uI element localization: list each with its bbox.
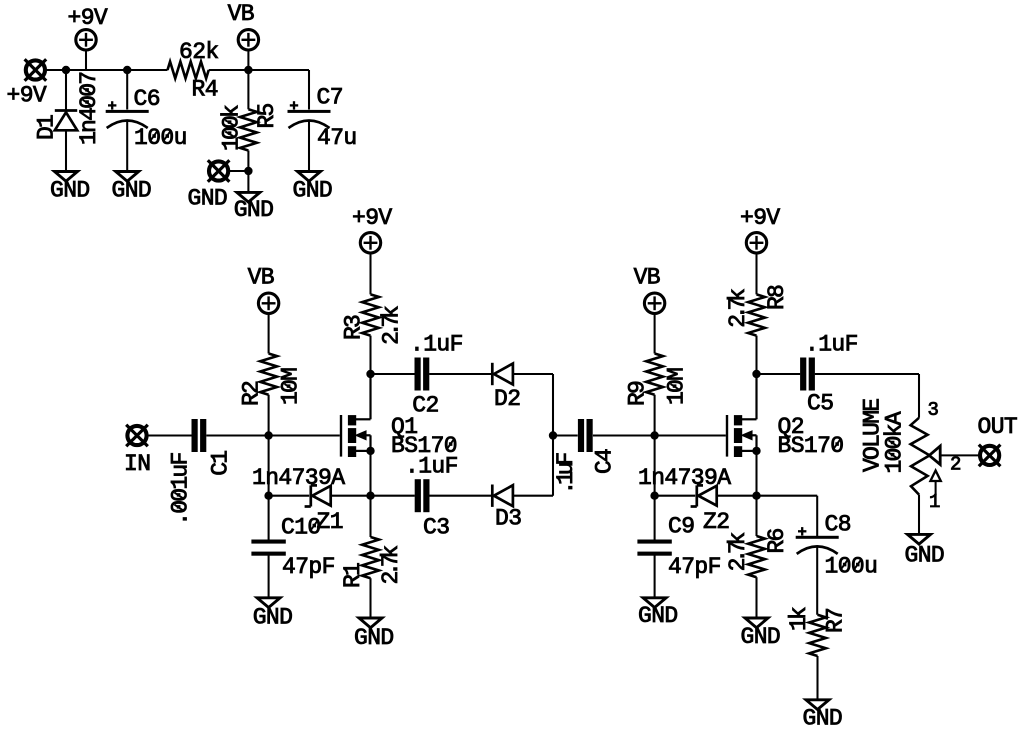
resistor R5 100k (247, 70, 249, 109)
label R1 (340, 563, 366, 588)
power symbol +9V (stage 1) (360, 233, 380, 253)
label R2 (239, 381, 265, 406)
svg-text:C4: C4 (592, 449, 618, 474)
potentiometer VOLUME 100kA track (911, 418, 930, 495)
svg-text:C2: C2 (412, 393, 438, 419)
label R6 (764, 528, 790, 553)
wire D2 to right column (513, 373, 553, 375)
svg-text:+9V: +9V (68, 5, 108, 31)
svg-text:.1uF: .1uF (410, 332, 463, 358)
ground below R1 (359, 618, 382, 628)
wire to GND jack (229, 170, 248, 172)
wire Z2 row left (655, 495, 696, 497)
capacitor C6 100u (126, 70, 128, 110)
label R7 (823, 609, 849, 633)
svg-text:VB: VB (228, 1, 254, 27)
connector IN (127, 426, 146, 445)
capacitor C8 100u (796, 536, 839, 539)
wire VB node to C7 (248, 69, 309, 71)
label 1k (786, 607, 812, 631)
wire C3 to D3 (429, 495, 492, 497)
wire C2 to D2 (429, 373, 492, 375)
svg-text:2.7k: 2.7k (378, 546, 404, 585)
wire gate node 2 to Q2 gate (655, 434, 726, 436)
svg-text:R7: R7 (823, 609, 849, 633)
diode D3 (491, 485, 494, 507)
label 1n4007 (76, 73, 102, 145)
svg-text:GND: GND (293, 177, 333, 203)
svg-text:GND: GND (638, 603, 678, 629)
resistor R1 2.7k (369, 496, 371, 537)
svg-text:D2: D2 (494, 386, 520, 412)
wire node A to C6 node (66, 69, 127, 71)
resistor R4 62k (168, 62, 209, 79)
label 10M (R2) (278, 368, 304, 405)
zener Z2 1n4739A (695, 485, 698, 506)
svg-text:C10: C10 (281, 515, 321, 541)
wire Z2 to source node 2 (716, 495, 756, 497)
svg-text:C9: C9 (668, 514, 694, 540)
svg-text:R2: R2 (239, 381, 265, 406)
svg-text:10M: 10M (664, 368, 690, 405)
svg-text:GND: GND (354, 625, 394, 651)
wire gate node to Q1 gate (269, 434, 340, 436)
svg-text:10M: 10M (278, 368, 304, 405)
svg-text:1n4739A: 1n4739A (252, 465, 345, 491)
node R5 bottom junction (244, 167, 252, 175)
wire Z1 to source node (330, 495, 370, 497)
power symbol +9V rail (76, 30, 96, 50)
diode D1 1n4007 (65, 70, 67, 111)
svg-text:47u: 47u (317, 125, 357, 151)
svg-text:100u: 100u (134, 125, 187, 151)
capacitor C7 47u (288, 110, 331, 113)
svg-text:GND: GND (253, 604, 293, 630)
node drain 1 junction (366, 370, 374, 378)
label VOLUME (860, 399, 886, 472)
svg-text:1k: 1k (786, 607, 812, 631)
ground below D1 (55, 172, 78, 182)
svg-text:2.7k: 2.7k (725, 289, 751, 328)
node B junction (123, 66, 131, 74)
wire jack to node (46, 69, 66, 71)
svg-text:GND: GND (188, 186, 228, 212)
resistor R3 2.7k (362, 294, 379, 335)
transistor Q2 BS170 (726, 415, 728, 457)
svg-text:100u: 100u (825, 554, 878, 580)
label 100kA (882, 411, 908, 473)
wire IN to C1 (148, 434, 192, 436)
connector +9V input jack (26, 60, 45, 79)
svg-text:IN: IN (124, 451, 150, 477)
wire C1 to gate node (206, 434, 268, 436)
wire Z1 row left (269, 495, 310, 497)
label 2.7k (R6) (725, 532, 751, 571)
resistor R7 1k (809, 615, 826, 656)
wire source node to C3 (371, 495, 415, 497)
svg-text:1: 1 (929, 491, 940, 513)
diode D2 (491, 363, 494, 385)
pot wiper arrow (929, 446, 940, 465)
power symbol +9V (stage 2) (746, 233, 766, 253)
svg-text:3: 3 (928, 399, 939, 421)
label 2.7k (R1) (378, 546, 404, 585)
node Q2 source-zener junction (752, 492, 760, 500)
node zener 2 junction (650, 492, 658, 500)
label 2.7k (R3) (379, 306, 405, 345)
svg-text:GND: GND (50, 178, 90, 204)
svg-text:OUT: OUT (978, 414, 1018, 440)
label R3 (340, 315, 366, 340)
node gate 2 junction (650, 431, 658, 439)
svg-text:100k: 100k (218, 105, 244, 151)
ground below pot (908, 534, 931, 544)
power symbol VB (top) (238, 30, 258, 50)
resistor R2 10M (260, 354, 277, 395)
transistor Q1 BS170 (340, 415, 342, 457)
svg-text:1n4007: 1n4007 (76, 73, 102, 145)
capacitor C2 .1uF (415, 358, 421, 391)
node gate 1 junction (264, 431, 272, 439)
ground below C6 (116, 172, 139, 182)
svg-text:GND: GND (803, 705, 843, 730)
svg-text:R9: R9 (625, 381, 651, 406)
svg-text:47pF: 47pF (668, 554, 721, 580)
label .001uF (C1) (168, 453, 194, 526)
node Q1 source-zener junction (366, 492, 374, 500)
node zener 1 junction (264, 492, 272, 500)
wire R4 to VB node (209, 69, 249, 71)
svg-text:2: 2 (950, 454, 961, 476)
label 10M (R9) (664, 368, 690, 405)
ground below C7 (298, 172, 321, 182)
wire gate node down to zener row (268, 436, 270, 496)
power symbol VB (stage 2) (644, 293, 664, 313)
svg-text:2.7k: 2.7k (725, 532, 751, 571)
svg-text:100kA: 100kA (882, 411, 908, 473)
node source 1 junction (366, 447, 374, 455)
svg-text:2.7k: 2.7k (379, 306, 405, 345)
wire R5 node to ground (247, 171, 249, 192)
svg-text:62k: 62k (179, 39, 219, 65)
svg-text:R4: R4 (192, 77, 218, 103)
svg-text:C6: C6 (134, 86, 160, 112)
svg-text:+9V: +9V (352, 205, 392, 231)
label C1 (207, 451, 233, 476)
wire C6 node to R4 (127, 69, 167, 71)
svg-text:GND: GND (234, 197, 274, 223)
ground below C10 (257, 598, 280, 608)
label .1uF (C4) (553, 453, 579, 495)
svg-text:R6: R6 (764, 528, 790, 553)
node A junction (62, 66, 70, 74)
capacitor C4 .1uF (578, 419, 584, 452)
svg-text:BS170: BS170 (778, 433, 844, 459)
wire gate node 2 down to zener row (654, 436, 656, 496)
svg-text:R1: R1 (340, 563, 366, 588)
resistor R8 2.7k (748, 294, 765, 335)
svg-text:R8: R8 (764, 285, 790, 310)
ground below C9 (643, 598, 666, 608)
capacitor C9 47pF (654, 496, 656, 542)
wire C4 to gate node 2 (593, 434, 655, 436)
wire down to C8 (816, 496, 818, 536)
capacitor C1 .001uF (192, 419, 198, 452)
svg-text:.1uF: .1uF (805, 332, 858, 358)
label 2.7k (R8) (725, 289, 751, 328)
ground below R5 (237, 192, 260, 202)
svg-text:R5: R5 (254, 103, 280, 128)
wire right column vertical (552, 374, 554, 496)
connector OUT (980, 446, 999, 465)
svg-text:.1uF: .1uF (405, 454, 458, 480)
svg-text:VB: VB (248, 265, 274, 291)
capacitor C10 47pF (268, 496, 270, 542)
svg-text:.1uF: .1uF (553, 453, 579, 495)
capacitor C3 .1uF (415, 479, 421, 512)
wire drain to C2 (371, 373, 415, 375)
svg-text:Z2: Z2 (703, 509, 729, 535)
label C4 (592, 449, 618, 474)
svg-text:47pF: 47pF (282, 554, 335, 580)
ground below R6 (745, 618, 768, 628)
wire column to C4 (553, 434, 578, 436)
svg-text:GND: GND (112, 177, 152, 203)
svg-text:C7: C7 (317, 84, 343, 110)
power symbol VB (stage 1) (258, 293, 278, 313)
svg-text:R3: R3 (340, 315, 366, 340)
label R8 (764, 285, 790, 310)
svg-text:D3: D3 (495, 506, 521, 532)
svg-text:+9V: +9V (7, 83, 47, 109)
svg-text:.001uF: .001uF (168, 453, 194, 526)
wire zener node 2 to C8 (757, 495, 818, 497)
svg-text:GND: GND (905, 543, 945, 569)
svg-text:+9V: +9V (740, 205, 780, 231)
connector GND jack (209, 161, 228, 180)
node VB junction (244, 66, 252, 74)
svg-text:D1: D1 (33, 115, 59, 140)
wire pot bottom to ground (918, 495, 920, 535)
svg-text:C1: C1 (207, 451, 233, 476)
wire down to C7 (308, 70, 310, 110)
zener Z1 1n4739A (309, 485, 312, 506)
wire C5 to pot (815, 373, 919, 375)
label D1 (33, 115, 59, 140)
label R9 (625, 381, 651, 406)
label R5 (254, 103, 280, 128)
svg-text:GND: GND (741, 624, 781, 650)
wire wiper to OUT (940, 454, 979, 456)
svg-text:C5: C5 (807, 391, 833, 417)
svg-text:C8: C8 (825, 512, 851, 538)
resistor R6 2.7k (755, 496, 757, 536)
wire down to volume pot (918, 374, 920, 418)
svg-text:VB: VB (634, 265, 660, 291)
pot rotation arrow (935, 481, 937, 495)
label 100k (218, 105, 244, 151)
wire drain 2 to C5 (757, 373, 801, 375)
svg-text:1n4739A: 1n4739A (638, 465, 731, 491)
wire D3 to right column (513, 495, 553, 497)
ground below R7 (806, 700, 829, 710)
node diode column junction (549, 431, 557, 439)
node source 2 junction (752, 447, 760, 455)
svg-text:C3: C3 (423, 515, 449, 541)
resistor R9 10M (646, 354, 663, 395)
node drain 2 junction (752, 370, 760, 378)
capacitor C5 .1uF (800, 358, 806, 391)
